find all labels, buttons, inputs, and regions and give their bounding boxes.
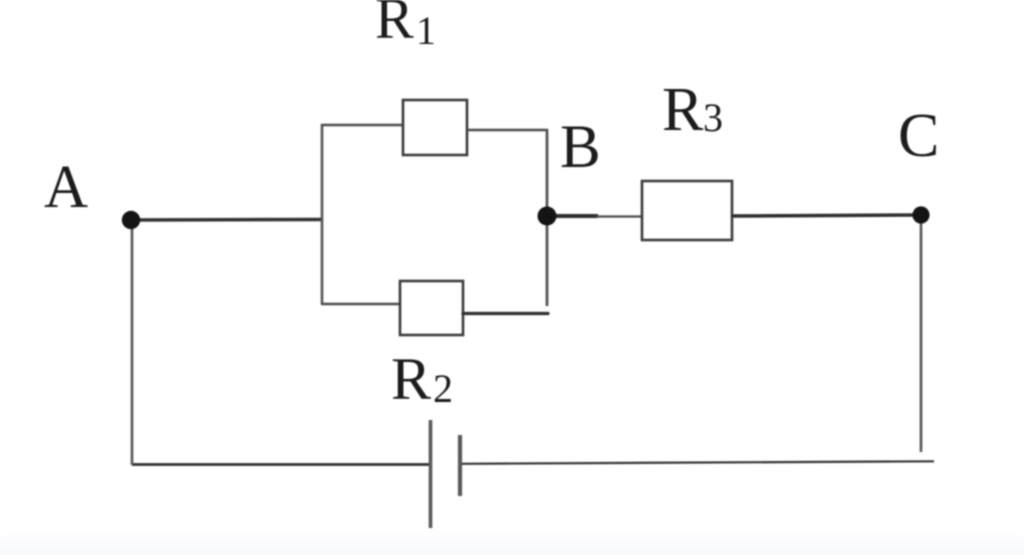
svg-text:B: B <box>560 114 601 181</box>
svg-text:R: R <box>375 0 414 51</box>
svg-text:A: A <box>44 154 88 221</box>
svg-text:3: 3 <box>703 95 723 140</box>
svg-text:C: C <box>898 102 939 170</box>
svg-text:2: 2 <box>433 366 453 411</box>
svg-text:R: R <box>662 76 704 144</box>
svg-text:R: R <box>391 346 431 412</box>
svg-text:1: 1 <box>416 8 436 53</box>
